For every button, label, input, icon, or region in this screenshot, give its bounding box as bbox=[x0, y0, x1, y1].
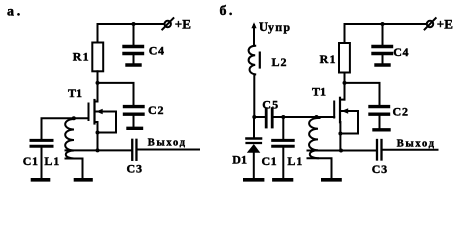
inductor L2 bbox=[249, 46, 288, 75]
wire drain to C2 right bbox=[345, 83, 380, 105]
control voltage arrow Uупр bbox=[251, 20, 291, 46]
svg-text:+E: +E bbox=[437, 17, 453, 32]
inductor L1 right bbox=[287, 117, 331, 178]
svg-text:T1: T1 bbox=[68, 86, 82, 100]
svg-text:C2: C2 bbox=[393, 104, 409, 118]
ground (D1) bbox=[245, 178, 263, 182]
ground (C2) left bbox=[128, 127, 142, 130]
wire C1 drop right bbox=[282, 117, 284, 139]
wire output rail right bbox=[308, 150, 376, 152]
capacitor C5 bbox=[254, 97, 283, 127]
resistor R1 right bbox=[320, 24, 350, 100]
wire output rail left bbox=[66, 149, 132, 151]
resistor R1 left bbox=[73, 24, 103, 102]
node rail/C4 junction left bbox=[132, 22, 136, 26]
svg-text:C4: C4 bbox=[149, 44, 165, 58]
wire output line left bbox=[138, 149, 199, 151]
svg-text:C1: C1 bbox=[23, 154, 39, 168]
wire top rail right bbox=[345, 23, 427, 25]
svg-text:Выход: Выход bbox=[397, 139, 436, 150]
svg-text:C3: C3 bbox=[127, 162, 143, 176]
node gate/L1 top junction left bbox=[72, 116, 76, 120]
capacitor C2 left bbox=[125, 103, 165, 127]
ground (C1) right bbox=[274, 178, 292, 182]
svg-text:Выход: Выход bbox=[148, 138, 187, 149]
node body-source junction right bbox=[338, 132, 342, 136]
svg-text:R1: R1 bbox=[320, 52, 337, 66]
node source-rail junction left bbox=[96, 148, 100, 152]
ground (C4) right bbox=[376, 63, 389, 66]
svg-text:C4: C4 bbox=[393, 45, 409, 59]
capacitor C4 left bbox=[124, 24, 165, 64]
svg-text:Uупр: Uупр bbox=[259, 20, 291, 34]
capacitor C1 right bbox=[262, 140, 294, 178]
ground (C2) right bbox=[374, 128, 389, 131]
node source-rail junction right bbox=[339, 149, 343, 153]
svg-text:L1: L1 bbox=[44, 154, 60, 168]
transistor T1 left bbox=[68, 86, 116, 150]
wire L2 bottom to node bbox=[253, 74, 255, 117]
inductor L1 left bbox=[44, 118, 82, 178]
wire gate net right bbox=[283, 116, 334, 118]
node C5/C1 junction bbox=[281, 115, 285, 119]
ground (L1) right bbox=[323, 178, 340, 182]
svg-text:C3: C3 bbox=[372, 162, 388, 176]
node body-source junction left bbox=[96, 131, 100, 135]
svg-text:C2: C2 bbox=[148, 103, 164, 117]
svg-text:C1: C1 bbox=[262, 154, 278, 168]
svg-text:T1: T1 bbox=[312, 85, 326, 99]
ground (L1) left bbox=[76, 178, 92, 182]
capacitor C3 left bbox=[127, 140, 143, 176]
wire top rail left bbox=[98, 23, 164, 25]
svg-text:L1: L1 bbox=[287, 154, 303, 168]
capacitor C4 right bbox=[373, 24, 409, 64]
svg-text:б.: б. bbox=[220, 4, 235, 19]
node drain junction right bbox=[343, 81, 347, 85]
svg-text:L2: L2 bbox=[272, 55, 288, 69]
svg-text:+E: +E bbox=[175, 17, 191, 32]
wire output line right bbox=[383, 149, 438, 151]
svg-text:D1: D1 bbox=[232, 153, 247, 167]
terminal +E left bbox=[162, 17, 191, 32]
node gate/L1 top junction right bbox=[315, 115, 319, 119]
node rail/C4 junction right bbox=[381, 22, 385, 26]
terminal +E right bbox=[425, 17, 453, 32]
transistor T1 right bbox=[312, 85, 358, 151]
capacitor C3 right bbox=[372, 140, 388, 176]
capacitor C1 left bbox=[23, 140, 52, 178]
ground (C4) left bbox=[127, 63, 140, 66]
wire gate net left bbox=[42, 118, 89, 139]
node L2/D1/C5 junction bbox=[252, 115, 256, 119]
wire drain to C2 left bbox=[98, 83, 134, 105]
ground (C1) left bbox=[33, 178, 49, 182]
capacitor C2 right bbox=[370, 104, 409, 128]
svg-text:a.: a. bbox=[7, 5, 23, 20]
svg-text:R1: R1 bbox=[73, 50, 90, 64]
varactor D1 bbox=[232, 117, 261, 178]
svg-text:C5: C5 bbox=[262, 97, 279, 111]
node drain junction left bbox=[96, 81, 100, 85]
